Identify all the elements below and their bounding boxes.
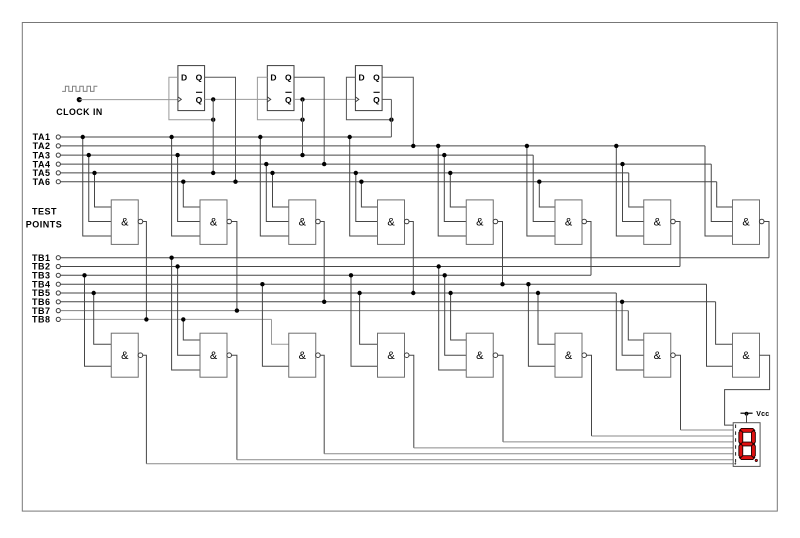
svg-text:&: & bbox=[210, 217, 218, 229]
svg-text:&: & bbox=[387, 350, 395, 362]
svg-text:Vcc: Vcc bbox=[756, 411, 769, 418]
svg-text:&: & bbox=[476, 350, 484, 362]
svg-text:Q: Q bbox=[373, 95, 380, 105]
svg-text:&: & bbox=[565, 217, 573, 229]
svg-text:&: & bbox=[476, 217, 484, 229]
svg-text:D: D bbox=[270, 73, 277, 83]
svg-text:&: & bbox=[654, 217, 662, 229]
svg-text:&: & bbox=[299, 350, 307, 362]
svg-text:Q: Q bbox=[196, 95, 203, 105]
svg-text:TEST: TEST bbox=[32, 207, 57, 217]
svg-text:TB8: TB8 bbox=[32, 315, 51, 325]
svg-text:&: & bbox=[565, 350, 573, 362]
svg-text:D: D bbox=[181, 73, 188, 83]
svg-text:&: & bbox=[387, 217, 395, 229]
svg-text:Q: Q bbox=[285, 73, 292, 83]
svg-text:&: & bbox=[210, 350, 218, 362]
svg-text:D: D bbox=[358, 73, 365, 83]
svg-text:Q: Q bbox=[285, 95, 292, 105]
svg-text:Q: Q bbox=[196, 73, 203, 83]
svg-text:&: & bbox=[121, 217, 129, 229]
svg-text:&: & bbox=[299, 217, 307, 229]
svg-text:POINTS: POINTS bbox=[26, 219, 63, 229]
svg-text:TA6: TA6 bbox=[33, 177, 51, 187]
svg-text:CLOCK IN: CLOCK IN bbox=[56, 107, 103, 117]
svg-text:&: & bbox=[654, 350, 662, 362]
svg-text:Q: Q bbox=[373, 73, 380, 83]
svg-text:&: & bbox=[121, 350, 129, 362]
svg-text:&: & bbox=[742, 350, 750, 362]
svg-text:&: & bbox=[742, 217, 750, 229]
